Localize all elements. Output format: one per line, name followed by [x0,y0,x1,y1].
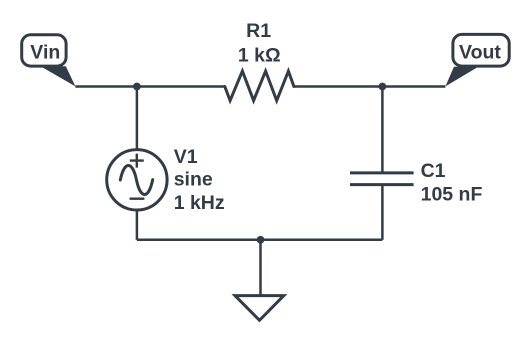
wire V1 bottom lead [136,210,139,240]
svg-text:R1: R1 [246,20,271,42]
wire ground stub [259,240,262,296]
svg-text:sine: sine [174,169,213,191]
svg-text:Vout: Vout [459,42,501,64]
junction node at ground tap [257,236,265,244]
junction node at V1 tap [133,83,141,91]
capacitor C1 top plate [350,171,414,174]
net flag Vout box [453,34,509,66]
svg-text:C1: C1 [421,160,446,182]
wire top-left segment [75,85,224,88]
voltage source V1 plus sign [130,154,144,168]
svg-text:1 kΩ: 1 kΩ [238,44,281,66]
wire top-right segment [294,85,446,88]
svg-text:1 kHz: 1 kHz [174,192,225,214]
wire V1 top lead [136,87,139,151]
svg-text:Vin: Vin [30,42,60,64]
net flag Vout tail [445,67,478,87]
voltage source V1 sine wave [120,165,152,194]
resistor R1 [225,71,294,101]
svg-text:105 nF: 105 nF [421,183,483,205]
capacitor C1 bottom plate [350,183,414,186]
svg-text:V1: V1 [174,146,198,168]
wire C1 bottom lead [381,185,384,240]
net flag Vin box [22,35,66,66]
ground symbol triangle [235,296,284,321]
net flag Vin tail [41,66,76,86]
wire bottom segment [137,239,383,242]
voltage source V1 circle [107,150,167,210]
junction node at C1 tap [379,83,387,91]
voltage source V1 minus sign [130,197,145,199]
wire C1 top lead [381,87,384,173]
